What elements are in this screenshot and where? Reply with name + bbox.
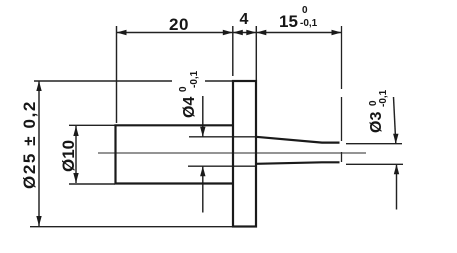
body Ø10 outline — [116, 125, 233, 183]
svg-text:0: 0 — [302, 5, 308, 16]
svg-text:Ø3: Ø3 — [368, 112, 385, 133]
extension line 15 right lower segment — [341, 152, 343, 162]
arrow 15 right — [332, 30, 342, 35]
extension line Ø4 bottom — [188, 165, 256, 167]
svg-text:Ø25 ± 0,2: Ø25 ± 0,2 — [20, 100, 39, 189]
svg-text:-0,1: -0,1 — [378, 89, 389, 107]
extension line Ø3 bottom — [346, 163, 403, 165]
shaft taper bottom edge — [256, 162, 340, 164]
dimension line Ø3 upper segment — [394, 97, 396, 144]
svg-text:4: 4 — [240, 11, 249, 28]
arrow Ø3 down — [393, 134, 398, 144]
arrow Ø10 top — [73, 126, 78, 136]
dimension line Ø3 lower segment — [396, 164, 398, 209]
dimension line Ø25 — [38, 81, 40, 226]
arrow Ø3 up — [394, 164, 399, 174]
svg-text:Ø10: Ø10 — [59, 140, 78, 172]
dimension line Ø10 — [75, 126, 77, 183]
arrow 20 left — [117, 30, 127, 35]
svg-text:15: 15 — [279, 12, 298, 31]
dimension line Ø4 upper segment — [202, 96, 204, 137]
extension line 20 left — [116, 26, 118, 123]
extension line Ø4 top — [189, 136, 256, 138]
extension line 15 right middle segment — [341, 97, 343, 141]
svg-text:-0,1: -0,1 — [300, 18, 318, 29]
svg-text:Ø4: Ø4 — [181, 97, 198, 118]
label Ø3 with tolerance — [368, 89, 389, 133]
arrow 15 left — [256, 30, 266, 35]
arrow Ø4 down — [200, 127, 205, 137]
extension line Ø25 top left segment — [34, 80, 172, 82]
extension line flange right (4/15 dim) — [255, 26, 257, 81]
extension line flange left (4 dim) — [232, 26, 234, 76]
arrow Ø4 up — [200, 166, 205, 176]
extension line Ø10 bottom — [69, 183, 115, 185]
arrow 20 right — [223, 30, 233, 35]
extension line 15 right upper segment — [341, 26, 343, 89]
extension line Ø3 top — [346, 143, 402, 145]
label Ø4 with tolerance — [178, 70, 200, 118]
shaft taper top edge — [256, 137, 340, 143]
dimension line top (20 / 4 / 15) — [117, 32, 342, 34]
arrow 4 right — [246, 30, 256, 35]
arrow Ø25 bottom — [36, 216, 41, 226]
arrow 4 left — [233, 30, 243, 35]
arrow Ø10 bottom — [73, 173, 78, 183]
flange Ø25 outline — [233, 81, 256, 227]
svg-text:-0,1: -0,1 — [189, 70, 200, 88]
arrow Ø25 top — [36, 81, 41, 91]
extension line Ø25 top right segment — [205, 80, 233, 82]
extension line Ø10 top — [69, 124, 115, 126]
svg-text:0: 0 — [178, 86, 189, 92]
centerline — [98, 152, 366, 154]
extension line Ø25 bottom — [30, 226, 233, 228]
dimension line Ø4 lower segment — [202, 166, 204, 212]
svg-text:20: 20 — [169, 15, 189, 34]
